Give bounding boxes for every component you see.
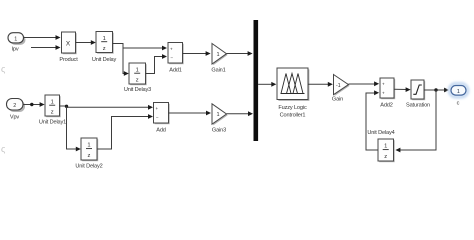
svg-text:Add1: Add1	[169, 68, 182, 74]
svg-text:Unit Delay3: Unit Delay3	[124, 87, 151, 93]
gain Gain1	[211, 44, 227, 74]
svg-text:+: +	[156, 106, 159, 111]
svg-text:−: −	[170, 55, 173, 60]
svg-text:+: +	[382, 91, 385, 96]
svg-text:c: c	[457, 101, 460, 107]
mux Mux	[254, 20, 259, 141]
wire feedback down to Unit Delay4	[395, 90, 436, 152]
wire Ipv to Product input 1	[24, 35, 61, 40]
svg-text:Gain: Gain	[332, 97, 343, 103]
wire Unit Delay to Add1	[113, 44, 168, 51]
svg-text:1: 1	[136, 67, 139, 73]
block Unit Delay4 (flipped)	[367, 130, 394, 162]
svg-text:Fuzzy Logic: Fuzzy Logic	[278, 105, 307, 111]
svg-text:1: 1	[457, 89, 460, 95]
block Saturation	[406, 80, 430, 109]
block Unit Delay3	[124, 63, 151, 93]
wire Saturation to output port c	[424, 88, 449, 93]
block Unit Delay	[92, 32, 117, 64]
gain Gain3	[212, 104, 228, 134]
svg-text:Unit Delay4: Unit Delay4	[367, 130, 394, 136]
svg-text:Unit Delay1: Unit Delay1	[39, 120, 66, 126]
wire Unit Delay1 to Add	[60, 105, 154, 110]
wire Add2 to Saturation	[394, 87, 411, 92]
wire Gain3 to Mux	[227, 111, 254, 116]
svg-text:X: X	[66, 41, 71, 48]
svg-text:z: z	[103, 46, 106, 52]
input port Vpv (2)	[7, 99, 26, 121]
svg-text:Vpv: Vpv	[10, 115, 20, 121]
svg-text:2: 2	[13, 103, 16, 109]
wire Unit Delay4 to Add2	[366, 90, 379, 150]
wire Mux to Fuzzy Logic Controller1	[258, 82, 276, 87]
svg-text:1: 1	[103, 36, 106, 42]
svg-text:Ipv: Ipv	[11, 47, 18, 53]
svg-text:ς: ς	[1, 64, 6, 74]
wire Add1 to Gain1	[183, 51, 211, 56]
svg-text:Unit Delay: Unit Delay	[92, 57, 117, 63]
svg-text:−: −	[156, 115, 159, 120]
wire Add to Gain3	[169, 111, 212, 116]
svg-text:z: z	[51, 109, 54, 115]
svg-text:Gain3: Gain3	[212, 128, 226, 134]
wire Gain1 to Mux	[227, 51, 253, 56]
gain Gain	[332, 75, 350, 103]
svg-text:z: z	[384, 154, 387, 160]
svg-text:Saturation: Saturation	[406, 103, 430, 109]
svg-text:Product: Product	[59, 57, 78, 63]
svg-text:ς: ς	[1, 144, 6, 154]
svg-text:1: 1	[217, 52, 220, 58]
svg-text:1: 1	[87, 143, 90, 149]
svg-text:Gain1: Gain1	[211, 67, 225, 73]
wire Product to Unit Delay	[76, 40, 96, 45]
svg-text:Unit Delay2: Unit Delay2	[75, 163, 102, 169]
block Product	[59, 32, 78, 63]
block Add	[154, 103, 170, 134]
svg-text:1: 1	[51, 99, 54, 105]
block Add2	[380, 78, 395, 109]
svg-text:Add: Add	[156, 128, 166, 134]
wire branch down to Unit Delay2	[67, 106, 81, 151]
wire Unit Delay2 to Add	[97, 114, 153, 149]
svg-text:Add2: Add2	[380, 103, 393, 109]
block Unit Delay2	[75, 138, 102, 169]
wire Gain to Add2	[349, 81, 380, 86]
wire Unit Delay3 to Add1	[146, 54, 168, 73]
svg-text:z: z	[88, 153, 91, 159]
block Fuzzy Logic Controller1	[277, 68, 309, 119]
svg-text:1: 1	[14, 36, 17, 42]
svg-text:+: +	[170, 46, 173, 51]
block Unit Delay1	[39, 95, 66, 126]
wire to Product input 2	[31, 45, 61, 50]
svg-text:1: 1	[384, 144, 387, 150]
svg-text:-1: -1	[336, 83, 341, 89]
input port Ipv (1)	[8, 33, 26, 53]
wire Fuzzy to Gain	[308, 82, 333, 87]
svg-text:z: z	[136, 77, 139, 83]
output port c (1) selected	[449, 84, 468, 107]
wire branch down to Unit Delay3	[123, 48, 129, 76]
block Add1	[168, 43, 184, 74]
svg-text:1: 1	[217, 112, 220, 118]
svg-text:Controller1: Controller1	[280, 113, 306, 119]
wire Vpv to Unit Delay1	[23, 102, 45, 107]
svg-text:+: +	[382, 82, 385, 87]
